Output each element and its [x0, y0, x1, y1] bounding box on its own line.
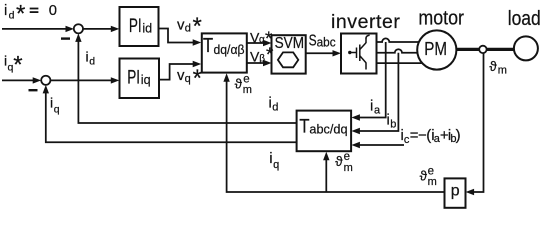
wire ic into Tabc/dq: [355, 144, 404, 146]
svg-text:iq: iq: [141, 72, 151, 87]
phase c line from inverter to motor: [377, 62, 422, 64]
load circle: [514, 36, 538, 60]
label PIid: [129, 16, 152, 37]
svg-text:e: e: [428, 166, 434, 178]
svg-text:*: *: [193, 65, 202, 92]
svg-text:T: T: [203, 35, 213, 57]
svg-text:e: e: [344, 151, 350, 163]
label id* = 0: [4, 1, 57, 28]
label iq*: [4, 51, 23, 78]
svg-text:T: T: [299, 116, 309, 138]
svg-text:*: *: [193, 13, 202, 40]
label Valpha*: [250, 29, 273, 50]
svg-text:m: m: [344, 162, 353, 174]
svg-text:q: q: [54, 103, 60, 115]
label Sabc: [309, 33, 336, 50]
svg-text:motor: motor: [418, 8, 464, 30]
svg-text:*: *: [266, 45, 274, 66]
wire vd* from PIid to Tdq/ab: [159, 29, 198, 43]
svg-text:v: v: [177, 16, 185, 33]
svg-text:i: i: [370, 98, 373, 115]
svg-text:m: m: [428, 176, 437, 188]
svg-text:id: id: [142, 21, 152, 36]
svg-text:d: d: [185, 22, 191, 34]
svg-text:p: p: [451, 182, 460, 199]
svg-text:dq/αβ: dq/αβ: [214, 42, 245, 57]
svg-text:abc/dq: abc/dq: [309, 121, 347, 136]
inverter box: [341, 34, 377, 74]
svg-text:i: i: [86, 48, 89, 64]
label theta_m^e under Tabc/dq: [335, 151, 352, 174]
svg-text:*: *: [16, 1, 25, 28]
svg-text:ϑ: ϑ: [420, 169, 428, 184]
label ib: [387, 112, 397, 131]
label iq output of Tabc/dq: [269, 150, 279, 171]
wire junction2 to PIiq: [50, 79, 115, 81]
label vq*: [177, 65, 202, 92]
svg-text:inverter: inverter: [331, 11, 400, 33]
hexagon icon inside SVM: [278, 52, 298, 67]
transform block Tabc/dq: [297, 111, 352, 152]
wire vbeta* from T to SVM: [247, 62, 268, 64]
svg-text:d: d: [9, 9, 15, 21]
wire ib sense down and into Tabc/dq: [355, 53, 398, 131]
summing junction 2: [41, 76, 50, 85]
label vd*: [177, 13, 202, 40]
label ic = -(ia+ib): [401, 127, 461, 146]
svg-text:S: S: [309, 33, 317, 50]
svg-text:abc: abc: [317, 36, 336, 50]
PI current controller PIid box: [120, 7, 159, 46]
minus sign at junction 1: [61, 37, 70, 39]
svg-text:a: a: [374, 105, 381, 117]
p block: [445, 178, 466, 207]
wire theta_m from node down to p block: [469, 53, 484, 192]
arrowhead into summing junction 1: [66, 26, 75, 32]
svg-text:ϑ: ϑ: [235, 77, 243, 92]
svg-text:0: 0: [49, 3, 57, 19]
svg-text:d: d: [89, 55, 95, 67]
minus sign at junction 2: [29, 89, 38, 91]
label Tabc/dq: [299, 116, 347, 138]
wire id feedback from Tabc/dq to junction 1: [78, 37, 296, 123]
wire iq feedback from Tabc/dq to junction 2: [46, 89, 297, 143]
svg-text:PI: PI: [127, 67, 140, 88]
svg-text:i: i: [4, 2, 7, 19]
label Tdq/alphabeta: [203, 35, 245, 57]
svg-text:q: q: [273, 159, 279, 171]
wire id* input: [2, 28, 70, 30]
wire theta_m^e from p block to transforms: [227, 77, 445, 192]
svg-text:m: m: [243, 84, 252, 96]
svg-text:q: q: [185, 73, 191, 85]
svg-text:e: e: [243, 74, 249, 86]
label theta_m^e under Tdq: [235, 74, 252, 96]
label theta_m^e at p block: [420, 166, 437, 189]
PI current controller PIiq box: [120, 59, 160, 99]
label id output of Tabc/dq: [269, 95, 279, 114]
svg-text:load: load: [508, 7, 541, 30]
svg-text:PM: PM: [424, 39, 447, 59]
svg-text:β: β: [259, 54, 265, 65]
svg-text:ϑ: ϑ: [335, 154, 343, 169]
wire junction1 to PIid: [83, 28, 116, 30]
motor circle PM: [417, 30, 456, 69]
label Vbeta*: [250, 45, 274, 66]
arrowhead into summing junction 2: [33, 77, 42, 83]
svg-text:): ): [456, 127, 461, 144]
label ia: [370, 98, 381, 117]
svg-text:SVM: SVM: [275, 35, 305, 52]
svg-text:*: *: [13, 51, 22, 78]
shaft from motor to load: [456, 48, 514, 51]
transform block Tdq/alphabeta: [202, 33, 247, 72]
wire valpha* from T to SVM: [247, 42, 268, 44]
svg-text:m: m: [498, 65, 507, 77]
svg-text:b: b: [390, 119, 396, 131]
label id feedback at junction: [86, 48, 96, 67]
svg-text:i: i: [50, 95, 53, 111]
wire theta_m^e branch up into Tabc/dq: [325, 155, 327, 192]
wire iq* input: [2, 79, 38, 81]
label theta_m at shaft node: [489, 59, 507, 77]
svg-text:=−(: =−(: [410, 127, 431, 144]
SVM block: [272, 35, 306, 73]
wire vq* from PIiq to Tdq/ab: [159, 64, 198, 80]
label PIiq: [127, 67, 150, 88]
svg-text:PI: PI: [129, 16, 142, 37]
wire ia sense down and into Tabc/dq: [355, 42, 386, 118]
shaft node for angle sensor: [479, 46, 486, 53]
label iq feedback at junction: [50, 95, 60, 116]
IGBT symbol inside inverter: [348, 35, 370, 69]
summing junction 1: [74, 24, 83, 33]
phase b line from inverter to motor with sensor bump: [377, 49, 423, 53]
svg-text:d: d: [272, 102, 278, 114]
wire Sabc from SVM to inverter: [306, 52, 337, 54]
svg-text:ϑ: ϑ: [489, 59, 497, 74]
phase a line from inverter to motor with sensor bump: [377, 38, 420, 42]
